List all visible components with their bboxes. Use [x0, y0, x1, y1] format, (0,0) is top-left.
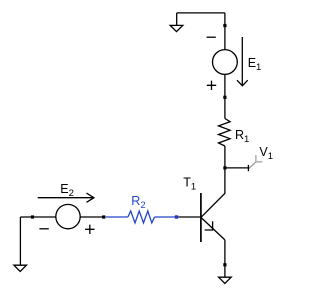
wire (node to probe) — [225, 167, 250, 169]
node (E2 minus terminal) — [31, 215, 34, 218]
resistor R2 — [128, 211, 155, 223]
wire (blue lead left of R2) — [105, 216, 128, 218]
transistor T1 — [201, 168, 225, 242]
resistor R1 — [219, 119, 231, 147]
probe V1 — [249, 155, 262, 168]
node (wire handle, blue) — [175, 215, 178, 218]
ground (bottom right) — [219, 277, 232, 283]
node (collector junction) — [223, 166, 226, 169]
node (E1 minus terminal) — [223, 24, 226, 27]
node (emitter terminal) — [223, 263, 226, 266]
ground (top left) — [170, 13, 183, 32]
wire (E2 to node) — [80, 216, 104, 218]
probe terminal tick — [247, 165, 249, 171]
wire (left vertical to ground) — [19, 217, 21, 265]
arrow E1 direction — [237, 37, 248, 86]
voltage source E1 — [207, 37, 238, 90]
node (E2 plus terminal) — [102, 215, 105, 218]
wire (R1 to node) — [224, 146, 226, 168]
wire (blue lead right of R2) — [155, 216, 176, 218]
wire (left corner to E2) — [20, 216, 56, 218]
wire (E1 to R1) — [224, 74, 226, 118]
wire (base) — [178, 216, 201, 218]
wire (emitter to ground) — [224, 240, 226, 277]
wire (top horizontal) — [177, 12, 225, 14]
wire (top right vertical to E1) — [224, 13, 226, 50]
ground (bottom left) — [14, 265, 27, 271]
arrow E2 direction — [38, 193, 94, 202]
voltage source E2 — [39, 204, 94, 234]
node (E1 plus terminal) — [223, 96, 226, 99]
